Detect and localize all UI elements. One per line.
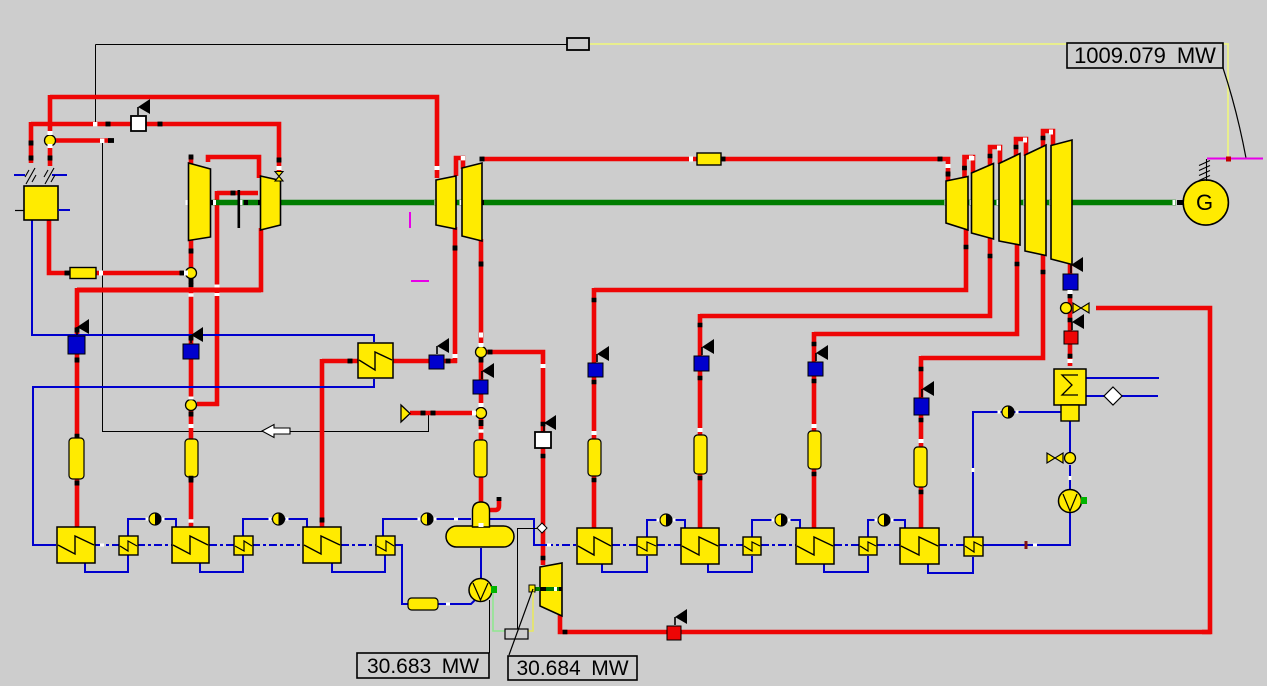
orifice on boiler outlet (70, 268, 96, 279)
IP1-IP2 crossover stub (456, 158, 463, 176)
LP1 extraction to heater A (594, 228, 966, 290)
H3 bottom loop (332, 555, 385, 572)
HX2 lower outlet line b (1122, 395, 1158, 397)
valve B8 on LP5 exhaust (1063, 274, 1078, 290)
pipe tick marks (106, 122, 111, 127)
flag F1 (137, 107, 139, 115)
red valve RS2 (667, 626, 681, 640)
valve B4 on heater A pipe (588, 363, 603, 377)
pointer line from 1009.079 label to generator node (1223, 68, 1246, 158)
valve B6 on heater C pipe (808, 362, 823, 376)
S1 to H2 drain loop (128, 519, 176, 536)
junction valve V3 (186, 400, 197, 411)
IP-LP crossover pipe (482, 159, 948, 182)
heater H3 steam down pipe (320, 359, 325, 528)
S4 riser to subcooler feed line (973, 412, 1061, 537)
feedwater heater H3 (303, 527, 341, 563)
condensate pump P1 (469, 579, 492, 602)
heater A steam down pipe (592, 288, 597, 528)
signal tap white diamond on BFPT supply (518, 529, 538, 630)
valve B7 on heater D pipe (914, 398, 929, 415)
HP1 top-left stub (189, 156, 194, 166)
magenta marks near IP turbine (409, 212, 411, 228)
turbine LP5 (1051, 140, 1072, 265)
turbine LP4 (1025, 145, 1046, 256)
generator ground hatch (1206, 159, 1208, 181)
turbine HP1 (189, 163, 211, 241)
subcooler drain to valve (1069, 421, 1071, 452)
shaft coupling mark (238, 190, 241, 228)
pale green power line from pump P1 (493, 593, 505, 631)
flag F3 (190, 335, 192, 343)
white node on signal tap (93, 122, 97, 126)
LP3 extraction to heater C (814, 243, 1017, 334)
flow meter FMD (1002, 406, 1014, 418)
boiler feed line via drain cooler (32, 219, 374, 342)
label 30.683 MW (357, 653, 489, 678)
HB bottom loop (708, 556, 752, 572)
drain cooler SC (859, 537, 877, 555)
measurement box on main steam (131, 116, 146, 131)
flow meter FM3 (421, 513, 433, 525)
signal line generator-power to measurement box (96, 44, 568, 46)
heater D steam down pipe (919, 356, 924, 528)
flag F10 (1071, 322, 1073, 330)
flag F9 (1070, 265, 1072, 273)
deaerator inlet from heater A side (490, 519, 545, 545)
H1 bottom loop (85, 555, 128, 572)
heater H1 steam down pipe (75, 288, 80, 528)
flag F4 (436, 346, 438, 354)
reheat loop vertical (189, 276, 194, 402)
turbine LP3 (999, 154, 1020, 246)
junction box (505, 629, 528, 639)
SC to HD drain loop (868, 520, 905, 537)
orifice on pump discharge (408, 598, 438, 610)
boiler (24, 186, 58, 220)
flow meter FM2 (273, 513, 285, 525)
pale yellow power line from BFPT shaft (528, 592, 533, 631)
HP stop valve bowtie (275, 172, 283, 182)
drain cooler SA (637, 537, 657, 555)
S2 to H3 drain loop (243, 519, 307, 536)
red valve RS1 (1064, 331, 1078, 344)
flag F6 (701, 347, 703, 355)
LP3-LP4 inlet loop (1016, 139, 1026, 156)
drain cooler S3 to deaerator line (383, 519, 471, 536)
boiler left stub (15, 210, 24, 212)
svg-text:30.684 MW: 30.684 MW (516, 657, 628, 680)
feedwater heater HC (796, 528, 834, 564)
extraction line through drain cooler (322, 359, 457, 364)
turbine HP2 (261, 176, 281, 230)
BFPT steam supply pipe (486, 352, 543, 565)
feedwater heater HB (681, 528, 719, 564)
H2 bottom loop (200, 555, 243, 572)
turbine LP2 (972, 164, 994, 240)
valve circle on drain (1065, 453, 1076, 464)
break symbol stub right (52, 174, 67, 176)
LP2-LP3 inlet loop (990, 147, 1000, 165)
HC bottom loop (824, 556, 868, 572)
condenser/heat exchanger HX2 (1054, 369, 1086, 405)
white diamond node (1104, 387, 1122, 405)
svg-text:30.683 MW: 30.683 MW (367, 655, 479, 678)
BFPT exhaust bottom line (560, 614, 1211, 632)
turbine shaft (190, 200, 1176, 205)
heater B steam down pipe (698, 314, 703, 528)
HP1 to HP2 top loop pipe (208, 157, 259, 178)
flag F11 (543, 423, 545, 431)
signal drop to main steam line (95, 45, 97, 125)
flow meter FMC (878, 514, 890, 526)
HX2 upper outlet line (1086, 377, 1159, 379)
gauge on H1 steam pipe (69, 438, 84, 479)
drain cooler HX1 (358, 343, 393, 378)
crossing gaps (189, 519, 194, 523)
HP2 inlet from cold reheat riser (217, 191, 258, 196)
gauge on heater D steam pipe (914, 447, 927, 487)
turbine LP1 (946, 177, 968, 231)
IP2 exhaust down pipe (479, 239, 484, 348)
valve B5 on heater B pipe (694, 356, 709, 371)
cold reheat riser (215, 191, 220, 406)
valve B9 on deaerator steam pipe (473, 380, 488, 394)
deaerator vent hook (489, 500, 499, 510)
signal line from reheat node to injection flag (103, 141, 429, 432)
HA bottom loop (602, 556, 647, 572)
stub from junction valve V1 (55, 138, 111, 143)
heater C steam down pipe (812, 332, 817, 528)
main steam pipe to HP turbine (31, 124, 279, 173)
condensate from pump P2 to drain cooler S4 (983, 513, 1070, 545)
IP1 extraction down pipe (453, 227, 458, 363)
HX2 lower outlet line a (1086, 395, 1104, 397)
white arrow on signal line (262, 425, 290, 438)
extraction to heater H2 (189, 409, 194, 528)
BFPT shaft over turbine (532, 587, 562, 591)
turbine IP2 (462, 163, 482, 241)
valve circle on LP5 line (1061, 303, 1072, 314)
power signal line (pale yellow) from box to generator (589, 44, 1228, 158)
LP5 exhaust pipe down (1068, 262, 1073, 366)
flow meter line gaps (146, 518, 149, 521)
HX2 subcooler box (1061, 405, 1079, 421)
magenta generator terminal line (1207, 158, 1263, 160)
junction valve V1 (45, 135, 56, 146)
boiler top riser B (29, 122, 34, 163)
bowtie valve to condenser loop (1073, 303, 1089, 313)
boiler top riser A (48, 95, 53, 138)
pointer line to 30.683 label (489, 600, 491, 653)
measurement box on generator signal (567, 38, 589, 50)
break symbol stub left (14, 174, 25, 176)
LP4 extraction to heater D (921, 253, 1043, 358)
LP1-LP2 inlet loop (965, 157, 974, 178)
valve B2 on H2 steam pipe (183, 344, 199, 359)
HP2 exhaust to heater H1 line (77, 228, 261, 290)
label 1009.079 MW (1067, 43, 1223, 68)
feedwater heater HA (577, 528, 612, 564)
measuring box on crossover (697, 153, 721, 165)
flag F8 (921, 389, 923, 397)
gauge on H2 steam pipe (185, 439, 198, 477)
svg-text:G: G (1196, 190, 1213, 215)
label 30.684 MW (508, 656, 637, 680)
pointer line to 30.684 label (509, 589, 533, 655)
hot reheat pipe to IP turbine (50, 97, 437, 178)
gauge on heater B steam pipe (694, 435, 707, 474)
drain cooler S3 (376, 536, 395, 555)
BFPT shaft end node (529, 585, 535, 592)
flow meter FM1 (149, 513, 161, 525)
link to reheat valve node (197, 402, 219, 407)
drain cooler SD (964, 537, 983, 556)
SB to HC drain loop (752, 520, 800, 537)
boiler outlet line to HP via orifice (49, 219, 186, 273)
valve B3 on extraction line (429, 355, 444, 369)
SA to HB drain loop (647, 520, 685, 537)
drain cooler outlet to heater H1 (33, 379, 374, 545)
flow meter FMB (775, 514, 787, 526)
flag F12 (674, 617, 676, 625)
junction valve V5 (476, 408, 487, 419)
valve B1 on H1 steam pipe (68, 336, 85, 354)
HP1 exhaust down pipe (189, 240, 194, 270)
deaerator to condensate pump (480, 548, 482, 580)
deaerator steam pipe lower (479, 418, 484, 503)
svg-text:1009.079 MW: 1009.079 MW (1074, 43, 1216, 68)
junction valve V4 (476, 347, 487, 358)
drain cooler S1 (119, 536, 138, 555)
LP4-LP5 inlet loop (1043, 131, 1053, 147)
condenser bypass loop right (1096, 308, 1210, 632)
deaerator tank (446, 526, 514, 547)
LP2 extraction to heater B (700, 237, 990, 316)
junction valve V2 (186, 268, 197, 279)
boiler right blue stub (58, 209, 70, 211)
injection line from source flag (410, 411, 477, 416)
riser A lower stub (48, 146, 53, 166)
gauge on heater C steam pipe (808, 431, 821, 469)
flow meter FMA (660, 514, 672, 526)
BFPT shaft (532, 587, 562, 591)
flag B9 (481, 371, 483, 379)
pipe break symbols above boiler (25, 168, 36, 184)
flag F7 (815, 353, 817, 361)
flag F5 (596, 354, 598, 362)
generator G (1183, 180, 1228, 225)
feedwater heater H2 (172, 527, 209, 563)
feedwater heater HD (900, 528, 939, 564)
turbine IP1 (436, 176, 456, 229)
drain pump P2 (1059, 490, 1082, 513)
drain cooler SB (743, 537, 761, 555)
gauge on heater A steam pipe (588, 439, 601, 476)
boiler feed pump turbine (540, 563, 562, 616)
feedwater heater H1 (57, 527, 95, 563)
flag F2 (76, 327, 78, 335)
pump discharge line (437, 598, 477, 604)
deaerator dome (473, 502, 490, 527)
yellow source flag (401, 405, 410, 422)
drain cooler S2 (234, 536, 253, 555)
deaerator steam pipe upper (479, 357, 484, 409)
condensate main line segments (95, 544, 119, 546)
gauge on deaerator steam pipe (474, 440, 487, 477)
measurement box on BFPT supply (535, 432, 551, 448)
bowtie valve on drain (1047, 453, 1063, 463)
condensate line to pump orifice (394, 545, 409, 604)
HD bottom loop (928, 557, 973, 573)
valve to pump P2 (1069, 465, 1071, 491)
